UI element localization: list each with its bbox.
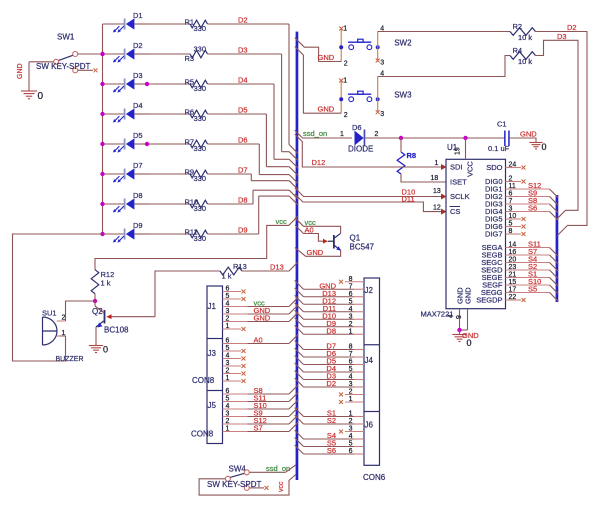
svg-text:9: 9 (456, 315, 463, 319)
svg-text:1: 1 (435, 160, 439, 167)
svg-text:18: 18 (431, 175, 439, 182)
svg-text:2: 2 (62, 315, 66, 322)
svg-text:R8: R8 (407, 151, 417, 160)
svg-text:D8: D8 (133, 191, 143, 200)
svg-text:GND: GND (17, 63, 24, 79)
svg-text:2: 2 (344, 112, 348, 119)
svg-text:330: 330 (194, 45, 207, 54)
svg-text:19: 19 (454, 147, 461, 155)
svg-text:Q2: Q2 (92, 307, 103, 316)
svg-text:1: 1 (343, 78, 347, 85)
svg-text:1: 1 (62, 330, 66, 337)
svg-text:10 k: 10 k (518, 57, 532, 66)
svg-text:D6: D6 (238, 136, 248, 145)
svg-text:D7: D7 (238, 166, 248, 175)
svg-text:D13: D13 (270, 263, 284, 272)
svg-text:D8: D8 (326, 326, 336, 335)
svg-text:SCLK: SCLK (450, 192, 470, 201)
svg-text:330: 330 (194, 204, 207, 213)
svg-text:GND: GND (520, 130, 537, 139)
svg-text:D4: D4 (238, 76, 248, 85)
svg-text:J4: J4 (365, 356, 374, 365)
svg-text:3: 3 (380, 60, 384, 67)
svg-text:A0: A0 (254, 336, 263, 345)
svg-text:CS: CS (450, 207, 460, 216)
svg-text:0: 0 (38, 91, 44, 102)
svg-text:Q1: Q1 (350, 234, 361, 243)
svg-text:D6: D6 (352, 123, 362, 132)
svg-text:D2: D2 (133, 41, 143, 50)
svg-text:SW2: SW2 (394, 39, 412, 48)
svg-text:BUZZER: BUZZER (56, 356, 84, 363)
svg-text:S5: S5 (528, 285, 537, 294)
svg-text:D1: D1 (133, 11, 143, 20)
svg-text:DIODE: DIODE (348, 145, 373, 154)
svg-text:D2: D2 (238, 16, 248, 25)
svg-text:D3: D3 (133, 71, 143, 80)
svg-text:D5: D5 (238, 106, 248, 115)
svg-text:GND: GND (254, 314, 271, 323)
svg-text:2: 2 (375, 131, 379, 138)
svg-text:BC108: BC108 (104, 326, 129, 335)
svg-text:GND: GND (318, 53, 335, 62)
svg-text:330: 330 (194, 234, 207, 243)
svg-text:D9: D9 (133, 221, 143, 230)
svg-text:1 k: 1 k (101, 279, 111, 288)
svg-text:J1: J1 (208, 302, 217, 311)
svg-text:13: 13 (433, 188, 441, 195)
svg-text:D7: D7 (133, 161, 143, 170)
svg-text:3: 3 (380, 111, 384, 118)
svg-text:R13: R13 (233, 262, 247, 271)
svg-text:SDI: SDI (450, 163, 463, 172)
svg-text:S2: S2 (327, 416, 336, 425)
svg-text:D8: D8 (238, 196, 248, 205)
svg-text:12: 12 (433, 205, 441, 212)
svg-text:330: 330 (194, 144, 207, 153)
svg-text:SW KEY-SPDT: SW KEY-SPDT (36, 62, 90, 71)
svg-text:330: 330 (194, 24, 207, 33)
svg-text:vcc: vcc (278, 481, 285, 492)
svg-text:CON8: CON8 (191, 430, 214, 439)
svg-text:J3: J3 (208, 349, 217, 358)
svg-text:ISET: ISET (450, 178, 467, 187)
svg-text:0: 0 (103, 345, 108, 355)
svg-text:CON8: CON8 (192, 376, 215, 385)
svg-text:J6: J6 (365, 421, 374, 430)
svg-text:1: 1 (340, 131, 344, 138)
svg-text:VCC: VCC (466, 161, 475, 177)
svg-text:SDO: SDO (486, 163, 502, 172)
svg-text:D12: D12 (312, 158, 326, 167)
svg-text:DIG7: DIG7 (485, 230, 503, 239)
svg-text:0: 0 (467, 338, 472, 348)
svg-text:D11: D11 (402, 195, 415, 204)
svg-text:D9: D9 (238, 226, 248, 235)
svg-text:SW1: SW1 (57, 33, 75, 42)
svg-text:GND: GND (464, 287, 473, 304)
svg-text:SEGDP: SEGDP (476, 296, 502, 305)
svg-text:S6: S6 (327, 446, 336, 455)
svg-text:SW KEY-SPDT: SW KEY-SPDT (207, 480, 261, 489)
svg-text:S6: S6 (528, 204, 537, 213)
svg-text:1: 1 (343, 26, 347, 33)
svg-text:SU1: SU1 (42, 309, 57, 318)
svg-text:J5: J5 (208, 401, 217, 410)
svg-text:SW4: SW4 (229, 465, 247, 474)
svg-text:BC547: BC547 (350, 243, 375, 252)
svg-text:R3: R3 (185, 54, 195, 63)
svg-text:D5: D5 (133, 131, 143, 140)
svg-text:D3: D3 (557, 32, 567, 41)
svg-text:CON6: CON6 (363, 473, 386, 482)
svg-text:SW3: SW3 (394, 91, 412, 100)
svg-text:ssd_on: ssd_on (303, 129, 327, 138)
svg-text:R4: R4 (513, 46, 523, 55)
svg-text:D2: D2 (567, 23, 577, 32)
svg-text:0.1 uF: 0.1 uF (488, 144, 510, 153)
svg-text:2: 2 (344, 61, 348, 68)
svg-text:MAX7221: MAX7221 (421, 310, 454, 319)
svg-text:S7: S7 (254, 424, 263, 433)
svg-text:330: 330 (194, 114, 207, 123)
svg-text:D3: D3 (238, 46, 248, 55)
svg-text:GND: GND (307, 248, 324, 257)
svg-text:330: 330 (194, 84, 207, 93)
svg-text:vcc: vcc (276, 217, 288, 226)
svg-text:330: 330 (194, 174, 207, 183)
svg-text:10 k: 10 k (518, 33, 532, 42)
svg-text:R2: R2 (513, 22, 523, 31)
svg-text:J2: J2 (365, 286, 374, 295)
svg-text:C1: C1 (497, 120, 507, 129)
svg-text:0: 0 (542, 142, 547, 152)
svg-text:D2: D2 (326, 379, 336, 388)
svg-text:GND: GND (318, 105, 335, 114)
svg-text:D4: D4 (133, 101, 143, 110)
svg-text:1 k: 1 k (222, 272, 232, 281)
